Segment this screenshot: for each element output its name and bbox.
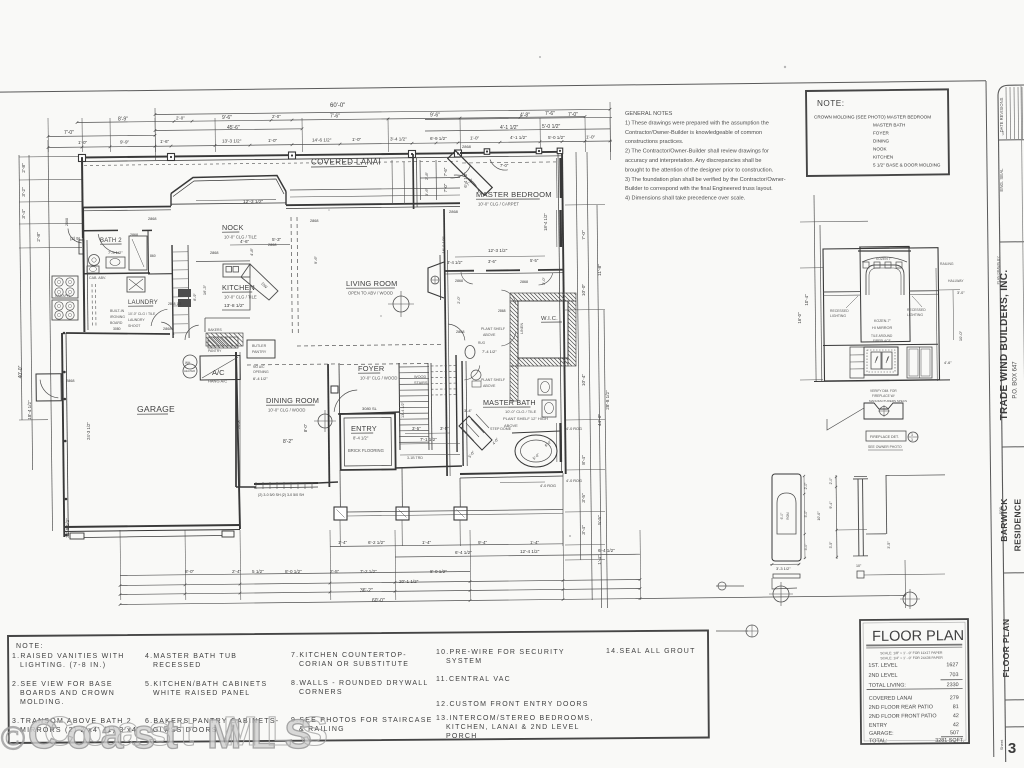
svg-text:LIVING ROOM: LIVING ROOM: [346, 279, 397, 288]
svg-text:1'-0": 1'-0": [268, 138, 278, 143]
svg-text:NO A/C: NO A/C: [253, 365, 265, 369]
svg-text:40'-0": 40'-0": [18, 365, 24, 378]
svg-text:3'-0": 3'-0": [804, 543, 808, 551]
svg-text:8'-4 1/2": 8'-4 1/2": [353, 436, 369, 441]
svg-text:8'-2": 8'-2": [283, 439, 293, 445]
svg-text:1'-6": 1'-6": [160, 139, 170, 144]
svg-text:4'-6": 4'-6": [944, 361, 952, 365]
svg-text:MASTER BATH: MASTER BATH: [483, 398, 536, 407]
svg-text:9'-4": 9'-4": [478, 540, 488, 545]
svg-text:2'-5": 2'-5": [330, 569, 340, 574]
svg-text:4'-0 ROG: 4'-0 ROG: [566, 479, 582, 483]
svg-text:20'-8": 20'-8": [236, 418, 241, 429]
svg-text:10'-4": 10'-4": [804, 294, 809, 306]
svg-text:10'-0": 10'-0": [817, 511, 821, 521]
svg-text:LINEN: LINEN: [520, 323, 524, 334]
svg-text:3080 SL: 3080 SL: [362, 406, 378, 411]
svg-text:3'-4": 3'-4": [581, 525, 587, 535]
svg-text:TOTAL:: TOTAL:: [869, 738, 887, 744]
svg-text:13'-3 1/2": 13'-3 1/2": [222, 139, 242, 144]
svg-text:SHOOT: SHOOT: [128, 324, 141, 328]
svg-text:1'-0": 1'-0": [586, 134, 596, 139]
svg-text:BUILT-IN: BUILT-IN: [110, 309, 125, 313]
svg-text:7'-6": 7'-6": [545, 111, 555, 117]
svg-text:3'-3 1/2": 3'-3 1/2": [776, 566, 791, 571]
svg-text:2'-0": 2'-0": [272, 114, 281, 119]
svg-text:PLANT SHELF: PLANT SHELF: [481, 327, 506, 331]
svg-text:9'-6": 9'-6": [313, 255, 318, 264]
svg-text:3: 3: [911, 433, 913, 437]
svg-text:BATH 2: BATH 2: [100, 238, 122, 244]
svg-text:GAS APPL.: GAS APPL.: [55, 294, 72, 298]
svg-text:2868: 2868: [498, 309, 506, 313]
svg-text:MANUFACTURERS SPECS: MANUFACTURERS SPECS: [869, 399, 907, 403]
svg-text:ABOVE: ABOVE: [483, 384, 496, 388]
svg-text:7'-6": 7'-6": [443, 167, 448, 176]
svg-text:W.I.C.: W.I.C.: [541, 316, 558, 322]
svg-text:2'-8": 2'-8": [21, 163, 27, 173]
svg-text:3'-2": 3'-2": [21, 187, 27, 197]
svg-text:2'-4": 2'-4": [232, 569, 242, 574]
svg-text:10'-0": 10'-0": [581, 284, 587, 297]
svg-text:36'-2": 36'-2": [360, 588, 373, 594]
svg-text:10'-0" CLG / WOOD: 10'-0" CLG / WOOD: [268, 408, 305, 413]
svg-text:8'-0 1/2": 8'-0 1/2": [430, 569, 447, 574]
svg-text:LIGHTING: LIGHTING: [907, 313, 923, 317]
svg-text:HALLWAY: HALLWAY: [948, 279, 964, 283]
svg-text:4'-8": 4'-8": [249, 247, 254, 256]
svg-text:PLAN DRAWN BY:: PLAN DRAWN BY:: [997, 256, 1001, 285]
svg-text:10": 10": [856, 564, 862, 568]
svg-text:SCALE: 1/8" = 1' - 0" FOR 11X1: SCALE: 1/8" = 1' - 0" FOR 11X17 PAPER: [880, 651, 943, 656]
svg-text:11.CENTRAL VAC: 11.CENTRAL VAC: [436, 676, 511, 683]
svg-text:16'-0 1/2": 16'-0 1/2": [441, 236, 446, 253]
svg-text:8'-4": 8'-4": [581, 455, 587, 465]
svg-text:FLOOR PLAN: FLOOR PLAN: [1001, 619, 1011, 678]
svg-text:16'-3": 16'-3": [202, 284, 207, 295]
svg-text:FOYER: FOYER: [358, 364, 384, 373]
svg-text:NOTE:: NOTE:: [817, 99, 845, 108]
svg-text:4'-1 1/2": 4'-1 1/2": [500, 125, 519, 131]
svg-text:WOOD: WOOD: [414, 375, 426, 379]
svg-text:7'-2 1/2": 7'-2 1/2": [360, 569, 377, 574]
svg-text:TOTAL LIVING:: TOTAL LIVING:: [869, 683, 906, 689]
svg-text:2'-0": 2'-0": [829, 477, 833, 485]
svg-text:PLANT SHELF 12" HIGH: PLANT SHELF 12" HIGH: [503, 416, 548, 421]
svg-text:5'-0": 5'-0": [804, 510, 808, 518]
svg-text:2ND FLOOR FRONT PATIO: 2ND FLOOR FRONT PATIO: [869, 713, 937, 720]
svg-text:WHITE RAISED PANEL: WHITE RAISED PANEL: [153, 690, 250, 697]
svg-text:5 1/2" BASE & DOOR MOLDING: 5 1/2" BASE & DOOR MOLDING: [873, 163, 941, 168]
svg-text:20'-1 1/2": 20'-1 1/2": [399, 579, 419, 584]
svg-text:2868: 2868: [520, 280, 528, 284]
svg-text:14.SEAL ALL GROUT: 14.SEAL ALL GROUT: [606, 648, 696, 655]
svg-text:2) The Contractor/Owner-Builde: 2) The Contractor/Owner-Builder shall re…: [625, 149, 769, 155]
svg-text:12'-3 1/2": 12'-3 1/2": [488, 248, 508, 253]
svg-text:6'-0": 6'-0": [780, 512, 784, 520]
svg-text:TRADE WIND BUILDERS, INC.: TRADE WIND BUILDERS, INC.: [999, 270, 1010, 421]
svg-text:13'-4 1/2": 13'-4 1/2": [401, 401, 405, 418]
svg-text:2ND FLOOR REAR PATIO: 2ND FLOOR REAR PATIO: [869, 704, 933, 711]
svg-text:1'-4": 1'-4": [422, 540, 432, 545]
svg-text:5'-0 1/2": 5'-0 1/2": [542, 124, 561, 130]
svg-text:8'-0 1/2": 8'-0 1/2": [285, 569, 302, 574]
svg-text:10'-0" CLG / TILE: 10'-0" CLG / TILE: [128, 312, 156, 316]
svg-text:6'-4 1/2": 6'-4 1/2": [253, 376, 268, 381]
svg-text:2868: 2868: [462, 144, 472, 149]
svg-text:2'-8": 2'-8": [424, 171, 429, 180]
svg-text:2'-0": 2'-0": [176, 116, 185, 121]
svg-text:KITCHEN: KITCHEN: [873, 155, 893, 160]
svg-text:KITCHEN, LANAI & 2ND LEVEL: KITCHEN, LANAI & 2ND LEVEL: [446, 724, 580, 731]
svg-text:FIREPLACE DET.: FIREPLACE DET.: [870, 435, 899, 439]
svg-text:13'-8 1/2": 13'-8 1/2": [224, 303, 245, 309]
svg-text:Coast MLS: Coast MLS: [44, 708, 337, 754]
svg-text:TILE AROUND: TILE AROUND: [871, 334, 893, 338]
svg-text:WH: WH: [185, 361, 191, 365]
svg-text:2868: 2868: [455, 279, 463, 283]
svg-text:©: ©: [0, 720, 26, 757]
svg-text:1'-4": 1'-4": [338, 540, 348, 545]
svg-text:1'-4": 1'-4": [530, 540, 540, 545]
svg-text:1'-0": 1'-0": [78, 140, 88, 145]
svg-text:PORCH: PORCH: [446, 733, 478, 740]
svg-text:LIGHTING. (7-8 IN.): LIGHTING. (7-8 IN.): [20, 662, 106, 669]
svg-text:MASTER BATH: MASTER BATH: [873, 123, 905, 128]
svg-text:10.PRE-WIRE FOR SECURITY: 10.PRE-WIRE FOR SECURITY: [436, 649, 565, 656]
svg-text:6'-4 1/2": 6'-4 1/2": [598, 548, 615, 553]
svg-text:LAUNDRY: LAUNDRY: [128, 300, 158, 306]
svg-text:10'-4": 10'-4": [581, 374, 587, 387]
svg-text:3'-4": 3'-4": [464, 408, 473, 413]
svg-text:8'-9": 8'-9": [118, 117, 128, 123]
svg-text:2'-0": 2'-0": [542, 277, 546, 285]
svg-text:7'-9 1/2": 7'-9 1/2": [108, 250, 123, 255]
svg-text:FOYER: FOYER: [873, 131, 890, 136]
svg-text:RAILING: RAILING: [940, 262, 954, 266]
svg-text:A/C: A/C: [212, 368, 225, 377]
svg-text:MOLDING.: MOLDING.: [20, 699, 65, 706]
svg-text:2.SEE VIEW FOR BASE: 2.SEE VIEW FOR BASE: [12, 681, 113, 688]
svg-text:11'-8": 11'-8": [597, 264, 603, 276]
svg-text:45'-6": 45'-6": [227, 125, 240, 131]
svg-text:ENTRY: ENTRY: [869, 723, 888, 729]
svg-text:BRICK FLOORING: BRICK FLOORING: [348, 448, 384, 453]
svg-text:60'-0": 60'-0": [330, 103, 345, 109]
svg-text:COVERED LANAI: COVERED LANAI: [311, 158, 381, 167]
svg-text:5'-5": 5'-5": [597, 515, 603, 525]
svg-text:constructions practices.: constructions practices.: [625, 139, 684, 145]
svg-text:LIGHTING: LIGHTING: [830, 314, 846, 318]
svg-text:7.KITCHEN COUNTERTOP-: 7.KITCHEN COUNTERTOP-: [291, 652, 407, 659]
svg-text:7'-0": 7'-0": [568, 112, 578, 118]
svg-text:NOOK: NOOK: [873, 147, 887, 152]
svg-text:SEE OWNER PHOTO: SEE OWNER PHOTO: [868, 445, 902, 449]
svg-text:8'-9": 8'-9": [193, 293, 197, 301]
svg-text:3) The foundation plan shall b: 3) The foundation plan shall be verified…: [625, 177, 786, 183]
svg-text:DINING ROOM: DINING ROOM: [266, 396, 319, 405]
svg-text:1627: 1627: [946, 662, 958, 668]
svg-text:1'-0": 1'-0": [470, 136, 480, 141]
svg-text:7'-0": 7'-0": [581, 230, 587, 240]
svg-text:42: 42: [953, 722, 959, 728]
svg-text:10'-0": 10'-0": [958, 330, 963, 341]
svg-text:OPENING: OPENING: [253, 370, 269, 374]
svg-text:2'-0": 2'-0": [457, 296, 461, 304]
svg-text:3'-5": 3'-5": [581, 493, 587, 503]
svg-text:2ND LEVEL: 2ND LEVEL: [868, 673, 897, 679]
svg-text:6'-4 1/2": 6'-4 1/2": [455, 550, 472, 555]
svg-text:4) Dimensions shall take prece: 4) Dimensions shall take precedence over…: [625, 196, 746, 202]
svg-text:5 1/2": 5 1/2": [252, 569, 264, 574]
svg-text:CROWN MOLDING (SEE PHOTO) MAST: CROWN MOLDING (SEE PHOTO) MASTER BEDROOM: [814, 115, 931, 120]
svg-text:DATE REVISIONS: DATE REVISIONS: [999, 97, 1004, 132]
svg-text:SCALE: 1/4" = 1' - 0" FOR 24X3: SCALE: 1/4" = 1' - 0" FOR 24X36 PAPER: [880, 656, 943, 661]
svg-text:5'-5": 5'-5": [530, 258, 539, 263]
svg-text:DINING: DINING: [873, 139, 890, 144]
svg-text:4'-0 ROG: 4'-0 ROG: [540, 484, 556, 488]
svg-text:ROM: ROM: [786, 512, 790, 520]
svg-text:FIREPLACE: FIREPLACE: [873, 339, 891, 343]
svg-text:4'-1 1/2": 4'-1 1/2": [510, 135, 527, 140]
svg-text:3-1B TRD: 3-1B TRD: [407, 456, 423, 460]
svg-text:18'-4 1/2": 18'-4 1/2": [543, 213, 548, 231]
svg-text:7'-0": 7'-0": [64, 130, 74, 136]
svg-text:9'-6": 9'-6": [222, 115, 232, 121]
svg-text:OPEN TO ABV / WOOD: OPEN TO ABV / WOOD: [348, 291, 393, 296]
svg-text:3'-5": 3'-5": [440, 426, 449, 431]
svg-text:60'-0": 60'-0": [372, 598, 385, 604]
svg-text:CAB. ABV.: CAB. ABV.: [89, 276, 106, 280]
svg-text:3281 SQFT.: 3281 SQFT.: [935, 738, 964, 744]
svg-text:BOARDS AND CROWN: BOARDS AND CROWN: [20, 690, 115, 697]
svg-text:2868: 2868: [210, 251, 218, 255]
svg-text:HEATER: HEATER: [184, 369, 195, 373]
svg-text:PANTRY: PANTRY: [252, 350, 267, 354]
svg-text:703: 703: [949, 672, 958, 678]
svg-text:1'-0": 1'-0": [352, 137, 362, 142]
svg-text:2868: 2868: [310, 219, 318, 223]
svg-text:2'-8": 2'-8": [36, 232, 42, 242]
svg-text:8.WALLS - ROUNDED DRYWALL: 8.WALLS - ROUNDED DRYWALL: [291, 680, 429, 687]
svg-text:6'-9 1/2": 6'-9 1/2": [430, 136, 447, 141]
svg-text:MASTER BEDROOM: MASTER BEDROOM: [476, 190, 552, 199]
svg-text:7'-4 1/2": 7'-4 1/2": [482, 349, 497, 354]
svg-text:4.MASTER BATH TUB: 4.MASTER BATH TUB: [145, 653, 237, 660]
svg-text:3'-4": 3'-4": [21, 209, 27, 219]
svg-text:8'-0": 8'-0": [185, 569, 195, 574]
svg-text:16'-0": 16'-0": [797, 312, 802, 324]
svg-text:HI MIRROR: HI MIRROR: [872, 326, 893, 330]
svg-text:4'-6": 4'-6": [240, 239, 250, 244]
svg-text:CORIAN OR SUBSTITUTE: CORIAN OR SUBSTITUTE: [299, 661, 409, 668]
svg-text:brought to the attention of th: brought to the attention of the designer…: [625, 167, 774, 173]
svg-text:PANTRY: PANTRY: [208, 349, 222, 353]
svg-text:12'-4 1/2": 12'-4 1/2": [520, 549, 540, 554]
svg-text:3'-6": 3'-6": [424, 187, 429, 196]
svg-text:10'-0" CLG / CARPET: 10'-0" CLG / CARPET: [478, 202, 519, 207]
svg-text:2868: 2868: [148, 217, 156, 221]
svg-text:BOARD: BOARD: [110, 321, 123, 325]
svg-text:RECESSED: RECESSED: [907, 308, 926, 312]
svg-text:5'-3": 5'-3": [272, 237, 282, 242]
svg-text:ENG. SEAL: ENG. SEAL: [999, 168, 1004, 192]
svg-text:9'-4": 9'-4": [829, 501, 833, 509]
svg-text:(2) 3-0 5/0 SH (2) 3-0 5/0 SH: (2) 3-0 5/0 SH (2) 3-0 5/0 SH: [258, 493, 305, 497]
svg-text:6'-2 1/2": 6'-2 1/2": [368, 540, 385, 545]
svg-text:RUG: RUG: [478, 341, 486, 345]
svg-text:3: 3: [911, 438, 913, 442]
svg-text:860: 860: [150, 254, 156, 258]
svg-text:GENERAL NOTES: GENERAL NOTES: [625, 111, 673, 117]
svg-text:accuracy and interpretation. A: accuracy and interpretation. Any discrep…: [625, 158, 762, 164]
svg-text:2868: 2868: [163, 327, 171, 331]
svg-text:3080: 3080: [113, 327, 121, 331]
svg-text:9'-6": 9'-6": [430, 113, 440, 119]
svg-text:1.RAISED VANITIES WITH: 1.RAISED VANITIES WITH: [12, 653, 125, 660]
svg-text:3: 3: [1008, 740, 1016, 757]
svg-text:3'-5": 3'-5": [829, 541, 833, 549]
svg-text:7'-0": 7'-0": [500, 163, 509, 168]
svg-text:10'-0" CLG / TILE: 10'-0" CLG / TILE: [224, 295, 257, 300]
svg-text:RESIDENCE: RESIDENCE: [1013, 499, 1023, 552]
svg-text:Sheet: Sheet: [999, 739, 1004, 750]
svg-text:13.INTERCOM/STEREO BEDROOMS,: 13.INTERCOM/STEREO BEDROOMS,: [436, 715, 594, 722]
svg-text:10'-0" CLG / WOOD: 10'-0" CLG / WOOD: [360, 376, 397, 381]
svg-text:BUTLER: BUTLER: [252, 344, 267, 348]
svg-text:NOCK: NOCK: [222, 223, 244, 232]
svg-text:IRONING: IRONING: [110, 315, 125, 319]
svg-text:28'-8 1/2": 28'-8 1/2": [605, 390, 610, 410]
svg-text:FLOOR PLAN: FLOOR PLAN: [872, 628, 964, 645]
svg-text:9'-9": 9'-9": [120, 140, 130, 145]
svg-text:KOZEN-7": KOZEN-7": [874, 319, 892, 323]
svg-text:ABOVE: ABOVE: [483, 333, 496, 337]
svg-text:3'-0": 3'-0": [957, 291, 965, 295]
svg-text:18'-4 1/2": 18'-4 1/2": [27, 400, 32, 420]
svg-text:ENTRY: ENTRY: [351, 424, 377, 433]
svg-text:2868 1/2: 2868 1/2: [168, 302, 181, 306]
svg-text:507: 507: [950, 730, 959, 736]
svg-text:7'-1 1/2": 7'-1 1/2": [420, 437, 437, 442]
svg-text:2868: 2868: [449, 209, 459, 214]
svg-text:GARAGE: GARAGE: [137, 404, 175, 414]
svg-text:STEP DOME: STEP DOME: [490, 427, 512, 431]
svg-text:4'-8": 4'-8": [520, 113, 530, 119]
svg-text:NOTE:: NOTE:: [16, 643, 44, 650]
svg-text:Contractor/Owner-Builder is kn: Contractor/Owner-Builder is knowledgeabl…: [625, 130, 762, 136]
svg-text:81: 81: [953, 704, 959, 710]
svg-text:8'-0": 8'-0": [303, 423, 308, 432]
svg-text:1) These drawings were prepare: 1) These drawings were prepared with the…: [625, 120, 769, 126]
svg-text:2868: 2868: [66, 379, 74, 383]
svg-text:CORNERS: CORNERS: [299, 689, 343, 696]
svg-text:2330: 2330: [947, 682, 959, 688]
svg-text:4'-0 ROG: 4'-0 ROG: [566, 427, 582, 431]
svg-text:BAKERS: BAKERS: [208, 328, 222, 332]
svg-text:RECESSED: RECESSED: [830, 309, 849, 313]
svg-text:GARAGE:: GARAGE:: [869, 731, 894, 737]
svg-text:12.CUSTOM FRONT ENTRY DOORS: 12.CUSTOM FRONT ENTRY DOORS: [436, 701, 589, 708]
svg-text:FIREPLACE W/: FIREPLACE W/: [872, 394, 895, 398]
svg-text:3'-4 1/2": 3'-4 1/2": [390, 137, 407, 142]
svg-text:RECESSED: RECESSED: [153, 662, 202, 669]
svg-text:BARWICK: BARWICK: [999, 498, 1009, 542]
svg-text:7'-0": 7'-0": [443, 183, 448, 192]
svg-text:2868: 2868: [65, 218, 69, 226]
svg-text:P.O. BOX 647: P.O. BOX 647: [1013, 361, 1019, 399]
svg-text:KOZEN 7": KOZEN 7": [876, 257, 893, 261]
svg-text:2'-0": 2'-0": [804, 482, 808, 490]
svg-text:PLANT SHELF: PLANT SHELF: [481, 378, 506, 382]
svg-text:10'-0" CLG / TILE: 10'-0" CLG / TILE: [505, 409, 537, 414]
svg-text:5.KITCHEN/BATH CABINETS: 5.KITCHEN/BATH CABINETS: [145, 681, 267, 688]
svg-text:LAUNDRY: LAUNDRY: [128, 318, 145, 322]
svg-text:1ST. LEVEL: 1ST. LEVEL: [868, 663, 897, 669]
svg-text:24'-3 1/2": 24'-3 1/2": [86, 422, 91, 440]
svg-text:2868: 2868: [456, 330, 464, 334]
svg-text:42: 42: [953, 713, 959, 719]
svg-text:3'-5": 3'-5": [412, 426, 421, 431]
svg-text:279: 279: [950, 695, 959, 701]
svg-text:14'-6 1/2": 14'-6 1/2": [312, 138, 332, 143]
svg-text:Builder to correspond with the: Builder to correspond with the final Eng…: [625, 186, 773, 192]
svg-text:5'-0 1/2": 5'-0 1/2": [548, 135, 565, 140]
svg-text:VERIFY DIM. FOR: VERIFY DIM. FOR: [870, 389, 897, 393]
svg-text:SYSTEM: SYSTEM: [446, 658, 482, 665]
svg-text:STAIRS: STAIRS: [414, 381, 428, 385]
svg-text:3'-5": 3'-5": [887, 541, 891, 549]
svg-text:COVERED LANAI: COVERED LANAI: [869, 696, 913, 702]
svg-text:3'-6": 3'-6": [488, 259, 497, 264]
svg-text:2868: 2868: [268, 243, 276, 247]
svg-text:3'-4 1/2": 3'-4 1/2": [447, 260, 463, 265]
svg-text:7'-6": 7'-6": [330, 114, 340, 120]
